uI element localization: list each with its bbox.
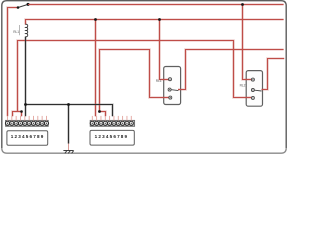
connector J1 pins <box>8 116 47 121</box>
relay RL1 body <box>164 67 181 105</box>
junction dot at J2 jog <box>98 110 101 113</box>
wire halo (soft downscale glow) <box>8 5 285 144</box>
svg-text:RL2: RL2 <box>240 84 246 88</box>
wire: red stub into ground symbol <box>68 144 70 151</box>
wire: relay RL2 common arm out, up and right to right edge <box>262 59 285 90</box>
wire: black ground bus across to connector J2 <box>26 105 113 117</box>
switch SW1 right terminal dot <box>27 3 30 6</box>
relay RL1 common contact <box>168 88 171 91</box>
wire: drop from top bus down to relay RL2 top contact <box>243 5 252 80</box>
connector J2 terminal circles <box>90 121 133 125</box>
switch SW1 arm <box>18 4 28 7</box>
wire: bus from node below coil, across to relay RL2 bottom contact <box>18 41 252 112</box>
connector J2 pin strip bar <box>90 120 134 126</box>
frame border <box>2 1 286 149</box>
wire: drop from second bus to connector J2 pin 2 <box>95 20 97 117</box>
svg-text:RL1: RL1 <box>156 79 162 83</box>
connector J1 terminal circles <box>5 121 48 125</box>
connector J1 pin strip bar <box>6 120 49 126</box>
relay RL2 body <box>246 71 262 107</box>
connector J2 body box <box>90 130 134 145</box>
wire: black drop to ground <box>68 105 70 144</box>
connector J2 pins <box>92 116 131 121</box>
connector J1 terminal center dots <box>7 123 47 124</box>
junction dot on second bus at x=95.5 <box>94 18 97 21</box>
connector J1 body box <box>7 131 48 146</box>
relay RL1 switch arm <box>171 89 178 92</box>
junction dot on top bus at x=242.5 <box>241 3 244 6</box>
relay RL2 top contact <box>251 78 254 81</box>
wire: from connector J2 jog up and across to relay RL1 bottom contact <box>100 50 169 112</box>
relay RL1 bottom contact <box>169 96 172 99</box>
inductor L1 core line <box>19 25 21 35</box>
relay RL2 bottom contact <box>251 96 254 99</box>
svg-text:RL1: RL1 <box>13 30 19 34</box>
junction dot at ground drop <box>67 103 70 106</box>
inductor L1 (relay coil) <box>26 24 28 36</box>
switch SW1 left terminal dot <box>17 6 20 9</box>
relay RL1 top contact <box>169 78 172 81</box>
junction dot black bus left <box>24 103 27 106</box>
wire: black from coil bottom down to connector J1 pin 5 <box>25 37 27 117</box>
wire: feed to switch left terminal, down left side to connector J1 pin 1 <box>8 8 18 117</box>
ground symbol <box>63 151 73 154</box>
wire: top bus from switch to right edge <box>28 4 284 6</box>
wire: jog at connector J1 pins 2-4 <box>13 112 22 117</box>
svg-text:123456789: 123456789 <box>95 134 129 139</box>
wire: jog at connector J2 to pin 4 <box>100 112 106 117</box>
relay RL2 common contact <box>251 89 254 92</box>
junction dot at jog right end <box>20 110 23 113</box>
relay RL2 switch arm <box>255 89 262 92</box>
wire: second bus from coil L1 top to right edge <box>26 20 284 25</box>
wire: drop from second bus to relay RL1 top contact <box>160 20 169 80</box>
wire: relay RL1 common arm out, up and right to right edge <box>178 50 284 90</box>
svg-text:123456789: 123456789 <box>11 134 45 139</box>
junction dot on second bus at x=159.5 <box>158 18 161 21</box>
connector J2 terminal center dots <box>92 123 132 124</box>
